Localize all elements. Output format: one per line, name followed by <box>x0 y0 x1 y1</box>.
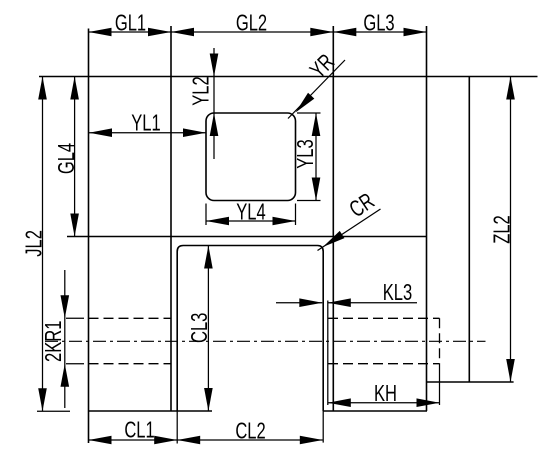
node dimension KH <box>328 402 440 404</box>
svg-text:GL2: GL2 <box>236 11 267 36</box>
svg-text:KH: KH <box>374 381 397 406</box>
node notch outline <box>177 246 323 412</box>
node leader YR <box>288 60 345 119</box>
svg-text:2KR1: 2KR1 <box>41 321 66 362</box>
node dimension JL2 <box>42 77 44 412</box>
wire hidden hole end <box>439 318 441 363</box>
svg-text:YL4: YL4 <box>236 200 265 225</box>
node dimension YL4 <box>206 220 296 222</box>
svg-text:GL3: GL3 <box>363 11 394 36</box>
wire hidden line left top <box>89 317 172 319</box>
wire center line <box>45 340 486 342</box>
wire 2KR1 extension bottom <box>66 363 84 365</box>
svg-text:CL1: CL1 <box>124 418 154 443</box>
node dimension GL4 <box>74 77 76 237</box>
node square hole <box>206 113 296 201</box>
svg-text:GL1: GL1 <box>115 11 146 36</box>
wire vertical edge x=426.5 <box>426 26 428 411</box>
wire KH extension left <box>327 301 329 406</box>
wire notch right extension below <box>322 411 324 443</box>
wire vertical edge x=171 <box>170 26 172 411</box>
wire mid horizontal edge <box>67 236 427 238</box>
wire top edge of part <box>39 76 538 78</box>
wire YL3 extension bottom <box>297 200 321 202</box>
svg-text:ZL2: ZL2 <box>490 215 515 244</box>
node dimension YL3 <box>315 113 317 201</box>
svg-text:CL2: CL2 <box>235 419 265 444</box>
wire YL4 extension left <box>205 204 207 226</box>
node dimension YL2 <box>213 48 215 159</box>
svg-text:JL2: JL2 <box>22 230 47 257</box>
wire JL2 bottom extension <box>37 410 70 412</box>
node dimension ZL2 <box>510 77 512 383</box>
wire YL3 extension top <box>297 112 321 114</box>
svg-text:GL4: GL4 <box>54 143 79 174</box>
node dimension CL1 CL2 line <box>89 439 323 441</box>
svg-text:YL3: YL3 <box>293 139 318 168</box>
wire boss bottom edge <box>427 381 514 383</box>
wire hidden line left bottom <box>89 363 172 365</box>
node dimension KL3 <box>276 302 322 304</box>
wire bottom edge left <box>89 410 212 412</box>
svg-text:KL3: KL3 <box>383 280 412 305</box>
svg-text:YL1: YL1 <box>131 111 160 136</box>
node dimension 2KR1 <box>64 270 66 408</box>
node dimension YL1 <box>89 132 206 134</box>
wire left edge of part <box>88 29 90 444</box>
wire hidden line right bottom <box>328 363 440 365</box>
node leader CR <box>318 209 381 251</box>
wire YL4 extension right <box>295 204 297 226</box>
node dimension CL3 <box>207 246 209 412</box>
wire notch left extension below <box>176 411 178 444</box>
wire hidden line right top <box>328 317 440 319</box>
wire right edge of part <box>468 77 470 383</box>
wire 2KR1 extension top <box>66 317 84 319</box>
wire vertical edge x=333 <box>332 26 334 411</box>
node dimension GL1 GL2 GL3 line <box>89 31 427 33</box>
svg-text:CL3: CL3 <box>187 313 212 343</box>
wire KH extension right <box>439 364 441 405</box>
svg-text:YL2: YL2 <box>189 76 214 105</box>
wire bottom edge right <box>323 410 427 412</box>
